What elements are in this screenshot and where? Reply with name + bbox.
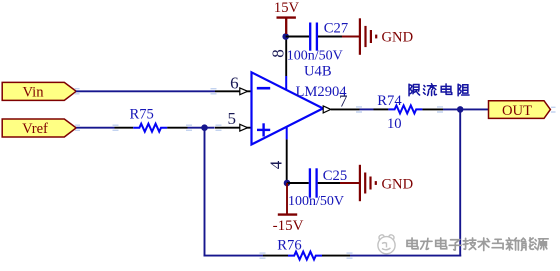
wire node to C25 — [287, 182, 309, 184]
svg-text:R74: R74 — [377, 93, 402, 109]
label 限流电阻 (current limiting resistor) — [409, 84, 469, 96]
pin 7 output — [323, 91, 359, 113]
junction node FB (below pin 5) — [201, 124, 208, 131]
wire R74 to OUT — [443, 108, 489, 110]
wire OUT node down — [459, 109, 461, 256]
capacitor C27 — [287, 20, 348, 63]
watermark logo — [378, 235, 395, 254]
svg-text:4: 4 — [267, 160, 286, 169]
svg-text:R76: R76 — [277, 238, 301, 254]
wire Vin to pin 6 — [76, 90, 215, 92]
svg-text:C25: C25 — [323, 168, 347, 184]
resistor R76 — [263, 238, 350, 260]
port Vref — [2, 119, 76, 137]
connection point markers — [75, 89, 556, 259]
wire FB bottom right — [350, 255, 461, 257]
wire Vref to R75 — [76, 127, 114, 129]
wire FB node down — [204, 128, 206, 256]
port OUT — [489, 101, 551, 119]
svg-text:Vref: Vref — [22, 121, 48, 137]
svg-text:GND: GND — [382, 30, 414, 46]
power -15V — [273, 183, 304, 234]
svg-text:C27: C27 — [324, 20, 348, 36]
ground GND (top) — [342, 18, 413, 55]
capacitor C25 — [288, 168, 347, 209]
op-amp U4B — [252, 72, 324, 144]
pin 4 (V- supply) — [267, 127, 287, 184]
svg-text:10: 10 — [387, 116, 402, 132]
pin 5 of U4B — [215, 109, 252, 131]
watermark text 电力电子技术与新能源 — [407, 238, 548, 251]
svg-text:-15V: -15V — [273, 218, 304, 234]
svg-text:6: 6 — [230, 73, 239, 92]
svg-text:8: 8 — [269, 49, 288, 58]
svg-text:7: 7 — [339, 91, 348, 110]
svg-text:OUT: OUT — [502, 103, 532, 119]
svg-text:15V: 15V — [274, 0, 300, 16]
junction +15V node — [282, 33, 289, 40]
resistor R75 — [115, 107, 188, 132]
port Vin — [2, 82, 76, 100]
svg-text:R75: R75 — [130, 107, 154, 123]
svg-text:5: 5 — [228, 109, 237, 128]
resistor R74 — [374, 93, 444, 132]
wire +15V node to C27 — [286, 36, 309, 38]
pin 6 of U4B — [215, 73, 252, 94]
ground GND (bottom) — [340, 165, 413, 201]
svg-text:U4B: U4B — [304, 64, 332, 80]
svg-text:GND: GND — [382, 176, 414, 192]
svg-text:100n/50V: 100n/50V — [287, 49, 343, 64]
power +15V — [274, 0, 300, 34]
junction -15V node — [284, 180, 291, 187]
wire pin7 to R74 — [360, 108, 374, 110]
wire R75 to pin 5 — [188, 127, 215, 129]
junction OUT node — [457, 106, 464, 113]
wire FB bottom left — [204, 255, 264, 257]
svg-text:100n/50V: 100n/50V — [288, 194, 344, 209]
svg-text:Vin: Vin — [22, 85, 44, 101]
pin 8 (V+ supply) — [269, 37, 288, 91]
